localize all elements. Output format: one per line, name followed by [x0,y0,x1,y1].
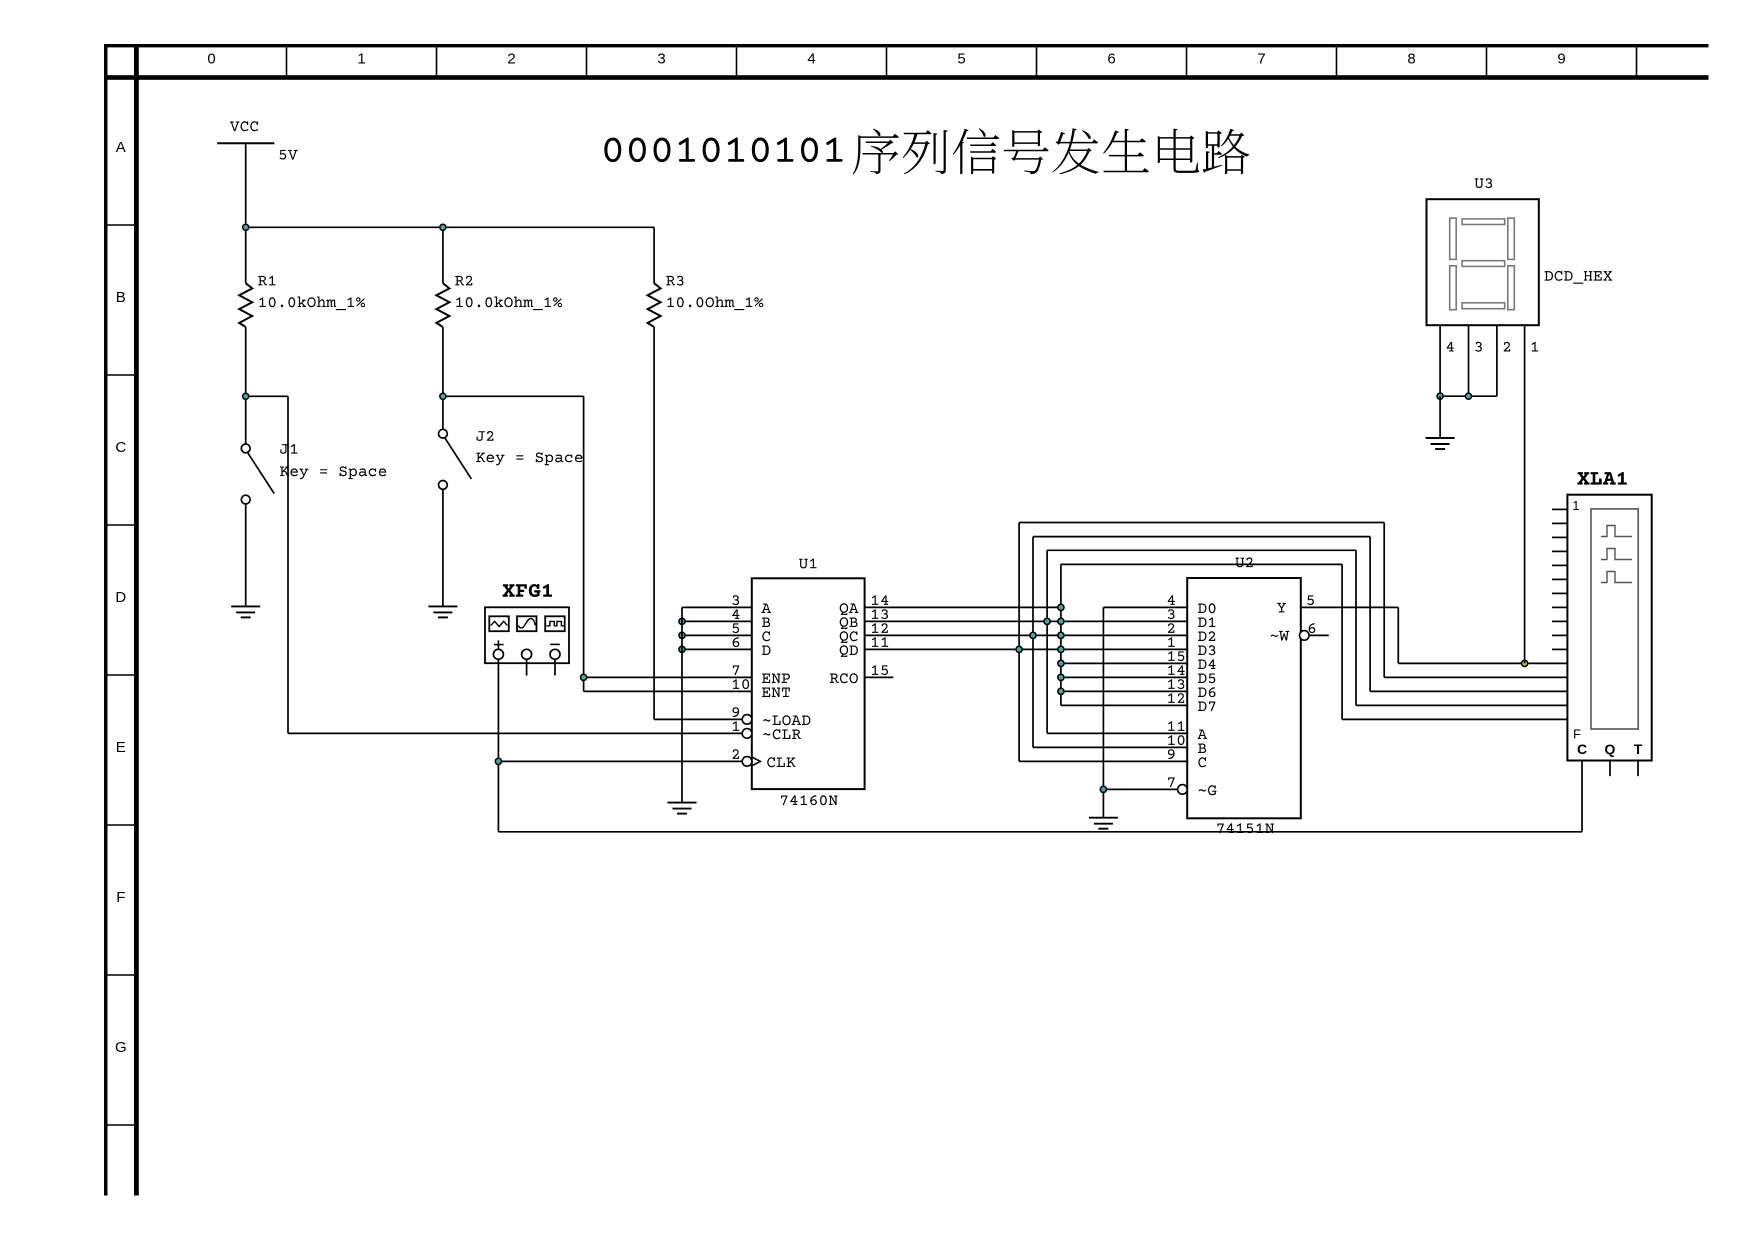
svg-text:F: F [116,889,125,906]
svg-text:5: 5 [957,51,965,68]
svg-text:G: G [115,1039,127,1056]
svg-text:Q: Q [1605,741,1616,757]
svg-text:D: D [115,589,126,606]
svg-text:0: 0 [207,51,215,68]
svg-text:1: 1 [1572,498,1579,513]
svg-text:1: 1 [357,51,365,68]
svg-text:C: C [115,439,126,456]
svg-text:T: T [1634,741,1643,757]
svg-text:E: E [116,739,126,756]
svg-text:B: B [116,289,126,306]
svg-text:9: 9 [1557,51,1565,68]
svg-text:8: 8 [1407,51,1415,68]
svg-text:3: 3 [657,51,665,68]
svg-text:C: C [1577,741,1587,757]
svg-text:2: 2 [507,51,515,68]
svg-text:6: 6 [1107,51,1115,68]
svg-text:A: A [116,139,126,156]
svg-text:4: 4 [807,51,815,68]
svg-text:F: F [1573,727,1581,742]
svg-text:7: 7 [1257,51,1265,68]
